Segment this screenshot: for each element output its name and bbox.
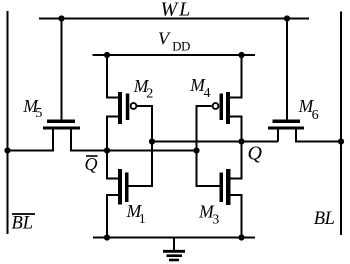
wire node Q line <box>152 141 278 143</box>
wire M5 gate lead <box>61 19 63 120</box>
wire M1 source lead <box>107 195 118 238</box>
wire M2/M1 gates to node Q <box>129 106 153 186</box>
wire BL bit line <box>340 12 342 236</box>
wire BLbar bit line <box>7 11 9 234</box>
svg-text:BL: BL <box>314 209 335 229</box>
junction dot node Q to M1/M2 gates <box>149 138 155 144</box>
transistor M3 (NMOS) <box>220 169 231 205</box>
transistor M4 (PMOS) <box>213 92 230 124</box>
junction dot WL / M6 gate <box>284 15 290 21</box>
wire M4 source lead <box>230 55 242 98</box>
junction dot node Qbar drains <box>104 147 110 153</box>
wire M2 source lead <box>107 55 118 98</box>
svg-text:3: 3 <box>212 212 219 227</box>
svg-text:5: 5 <box>35 106 42 121</box>
label WL <box>161 0 193 20</box>
transistor M1 (NMOS) <box>118 169 129 205</box>
label BL <box>314 209 335 229</box>
svg-text:DD: DD <box>172 40 190 54</box>
label node Q <box>248 143 263 165</box>
junction dot WL / M5 gate <box>58 15 64 21</box>
svg-text:2: 2 <box>146 86 153 101</box>
label M6 <box>298 96 319 123</box>
junction dot ground / M1 source <box>104 234 110 240</box>
svg-text:6: 6 <box>312 108 319 123</box>
wire VDD rail <box>93 54 256 56</box>
svg-text:BL: BL <box>12 214 34 234</box>
wire M2 drain lead <box>107 117 118 151</box>
junction dot node Q drains <box>238 138 244 144</box>
junction dot BLbar / M5 <box>4 147 10 153</box>
svg-text:Q: Q <box>248 143 263 165</box>
junction dot ground / M3 source <box>238 234 244 240</box>
label node Qbar <box>85 154 98 174</box>
svg-text:Q: Q <box>85 154 98 174</box>
junction dot VDD / M2 source <box>104 52 110 58</box>
wire node Qbar line <box>71 130 197 151</box>
wire M6 source to Q line <box>277 130 279 142</box>
wire M4 drain lead <box>230 117 242 142</box>
junction dot VDD / M4 source <box>238 52 244 58</box>
wire M6 gate lead <box>286 19 288 120</box>
wire M4/M3 gates to node Qbar <box>197 106 224 186</box>
ground <box>163 238 185 261</box>
label M1 <box>126 201 146 227</box>
svg-text:1: 1 <box>139 212 146 227</box>
wire M1 drain lead <box>107 151 118 179</box>
svg-text:4: 4 <box>204 86 211 101</box>
wire BLbar to M5 source <box>8 130 54 151</box>
svg-text:V: V <box>158 29 171 49</box>
junction dot node Qbar to M3/M4 gates <box>193 147 199 153</box>
wire M6 drain to BL <box>296 130 341 142</box>
wire M3 source lead <box>231 195 242 238</box>
label M2 <box>133 76 153 102</box>
label M5 <box>22 96 42 121</box>
wire M3 drain lead <box>231 142 242 179</box>
transistor M6 (NMOS access) <box>268 120 304 130</box>
wire WL rail <box>39 18 309 20</box>
label VDD <box>158 29 190 54</box>
label M3 <box>198 201 219 227</box>
transistor M5 (NMOS access) <box>43 120 80 130</box>
label M4 <box>189 75 210 101</box>
label BLbar <box>12 214 36 234</box>
transistor M2 (PMOS) <box>118 92 136 124</box>
junction dot BL / M6 <box>338 138 344 144</box>
svg-text:WL: WL <box>161 0 193 20</box>
wire ground rail <box>93 237 255 239</box>
